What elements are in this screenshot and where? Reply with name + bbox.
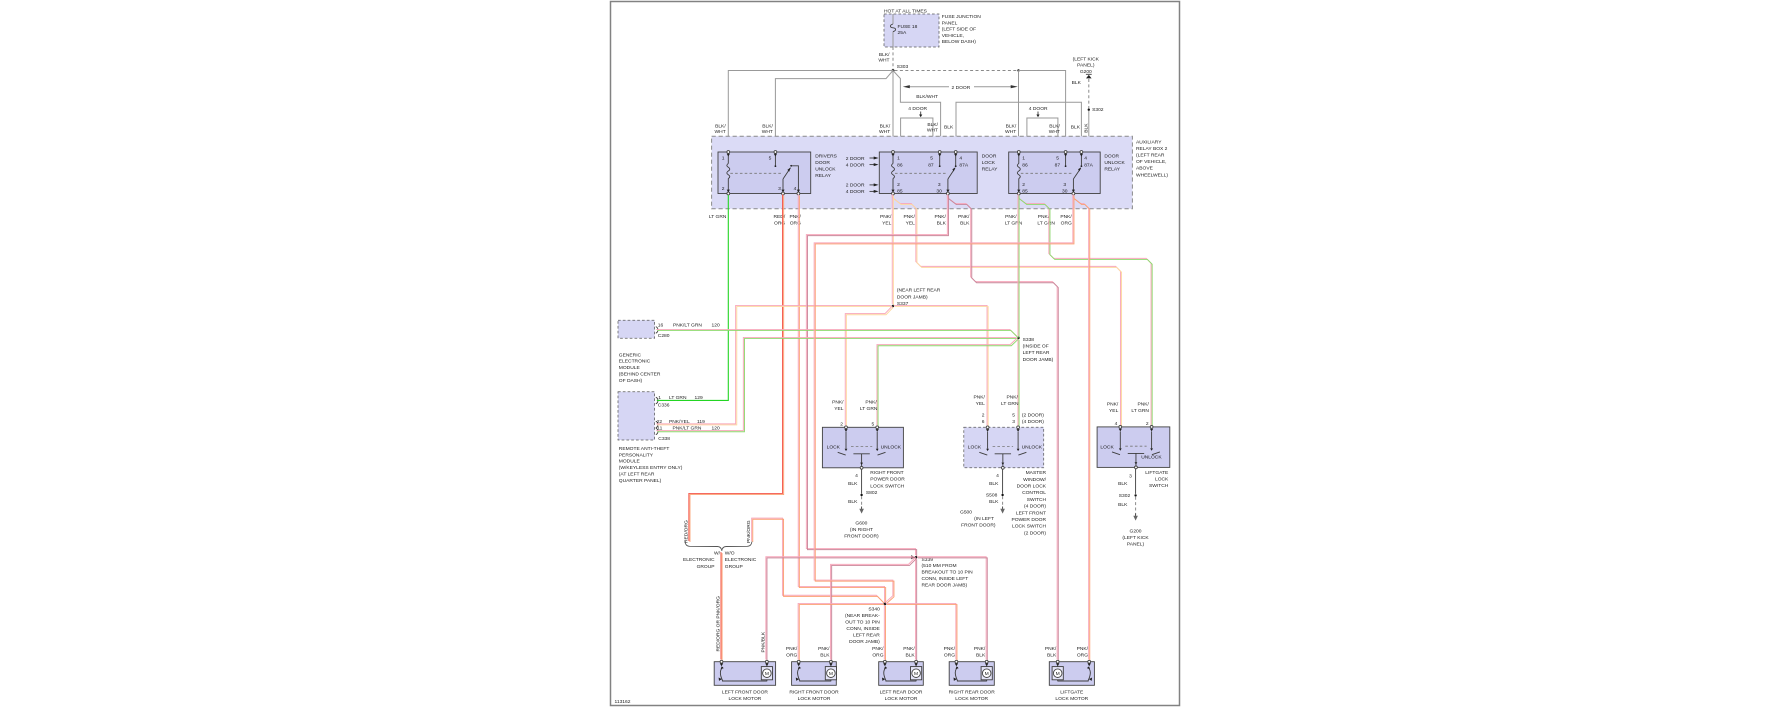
- svg-text:CONTROL: CONTROL: [1022, 490, 1046, 496]
- svg-text:M: M: [985, 671, 989, 677]
- border frame: [611, 2, 1180, 706]
- wire BLK/WHT to relay3 pin5: [1019, 71, 1066, 151]
- svg-text:LIFTGATE: LIFTGATE: [1145, 470, 1169, 476]
- ground G500: [1002, 507, 1004, 510]
- svg-text:ELECTRONIC: ELECTRONIC: [683, 557, 715, 563]
- svg-text:BLK/: BLK/: [927, 122, 938, 128]
- svg-text:WHT: WHT: [879, 129, 890, 135]
- svg-text:ABOVE: ABOVE: [1136, 166, 1154, 172]
- relay K1 drivers door unlock relay: [718, 152, 811, 194]
- svg-text:PNK/: PNK/: [786, 646, 798, 652]
- svg-text:LOCK: LOCK: [968, 445, 982, 451]
- wire PNK/ORG S340 to right front motor: [798, 603, 883, 659]
- svg-text:FUSE JUNCTION: FUSE JUNCTION: [942, 14, 982, 20]
- svg-text:UNLOCK: UNLOCK: [1141, 454, 1162, 460]
- svg-text:MASTER: MASTER: [1026, 470, 1047, 476]
- brace W / W-O electronic group: [685, 542, 752, 551]
- svg-text:6: 6: [982, 419, 985, 425]
- svg-text:LOCK MOTOR: LOCK MOTOR: [1055, 696, 1088, 702]
- splice S339: [911, 555, 915, 559]
- svg-text:4 DOOR: 4 DOOR: [846, 189, 865, 195]
- wire BLK/WHT S303 to door lock relay pin5: [893, 71, 941, 151]
- svg-text:2: 2: [840, 421, 843, 427]
- svg-text:FUSE 18: FUSE 18: [898, 24, 918, 30]
- svg-text:BLK: BLK: [1118, 502, 1128, 508]
- svg-text:PNK/: PNK/: [903, 646, 915, 652]
- svg-text:BLK/: BLK/: [879, 52, 890, 58]
- svg-text:ORG: ORG: [872, 653, 883, 659]
- svg-text:LT GRN: LT GRN: [1131, 408, 1149, 414]
- svg-text:LEFT REAR: LEFT REAR: [1023, 350, 1050, 356]
- svg-text:ORG: ORG: [1061, 221, 1072, 227]
- svg-text:REAR DOOR JAMB): REAR DOOR JAMB): [922, 582, 968, 588]
- svg-text:5: 5: [769, 156, 772, 162]
- svg-text:4: 4: [959, 156, 962, 162]
- svg-text:POWER DOOR: POWER DOOR: [870, 477, 905, 483]
- svg-text:C338: C338: [658, 436, 670, 442]
- svg-text:DOOR JAMB): DOOR JAMB): [849, 639, 880, 645]
- svg-text:4: 4: [1084, 156, 1087, 162]
- svg-text:BLK: BLK: [820, 653, 830, 659]
- svg-text:BLK: BLK: [960, 221, 970, 227]
- svg-text:87: 87: [928, 162, 934, 168]
- svg-text:YEL: YEL: [882, 221, 892, 227]
- svg-text:86: 86: [897, 162, 903, 168]
- svg-text:PNK/: PNK/: [973, 395, 985, 401]
- svg-text:2: 2: [897, 182, 900, 188]
- svg-text:RED/ORG: RED/ORG: [683, 520, 689, 543]
- svg-text:86: 86: [1022, 162, 1028, 168]
- svg-text:LT GRN: LT GRN: [860, 406, 878, 412]
- svg-text:PNK/: PNK/: [880, 214, 892, 220]
- svg-text:(IN LEFT: (IN LEFT: [974, 516, 994, 522]
- svg-text:M: M: [829, 671, 833, 677]
- svg-text:DRIVERS: DRIVERS: [815, 153, 837, 159]
- svg-text:(2 DOOR): (2 DOOR): [1024, 530, 1046, 536]
- svg-text:S302: S302: [1119, 493, 1131, 499]
- svg-text:LEFT FRONT DOOR: LEFT FRONT DOOR: [722, 689, 768, 695]
- svg-text:S303: S303: [897, 64, 909, 70]
- svg-text:M: M: [765, 671, 769, 677]
- wire RED/ORG relay1 pin3 to W/ group: [689, 194, 783, 541]
- svg-text:LEFT REAR: LEFT REAR: [853, 633, 880, 639]
- wire BLK/WHT S303 to drivers relay pin1: [728, 71, 893, 151]
- svg-text:LEFT FRONT: LEFT FRONT: [1016, 510, 1046, 516]
- svg-text:LOCK MOTOR: LOCK MOTOR: [955, 696, 988, 702]
- svg-text:LEFT REAR DOOR: LEFT REAR DOOR: [880, 689, 923, 695]
- svg-text:PNK/BLK: PNK/BLK: [761, 631, 767, 652]
- motor left front door lock motor: [714, 662, 775, 686]
- svg-text:3: 3: [938, 182, 941, 188]
- svg-text:4 DOOR: 4 DOOR: [1029, 106, 1048, 112]
- svg-text:SWITCH: SWITCH: [1027, 497, 1047, 503]
- svg-text:PANEL): PANEL): [1077, 63, 1095, 69]
- svg-text:CONN, INSIDE LEFT: CONN, INSIDE LEFT: [922, 576, 969, 582]
- svg-text:BLK/: BLK/: [762, 123, 773, 129]
- svg-text:WHT: WHT: [927, 128, 938, 134]
- svg-text:(NEAR LEFT REAR: (NEAR LEFT REAR: [897, 288, 941, 294]
- wire BLK dashed to S302: [1088, 79, 1090, 109]
- svg-text:BLK: BLK: [848, 481, 858, 487]
- svg-text:M: M: [914, 671, 918, 677]
- svg-text:UNLOCK: UNLOCK: [1104, 160, 1125, 166]
- svg-text:DOOR JAMB): DOOR JAMB): [897, 294, 928, 300]
- svg-text:4 DOOR: 4 DOOR: [846, 162, 865, 168]
- svg-text:LOCK: LOCK: [1100, 444, 1114, 450]
- svg-text:1: 1: [1022, 156, 1025, 162]
- svg-text:5: 5: [1056, 156, 1059, 162]
- svg-text:OF VEHICLE,: OF VEHICLE,: [1136, 159, 1166, 165]
- svg-text:BLK: BLK: [848, 499, 858, 505]
- svg-text:LT GRN: LT GRN: [1005, 221, 1023, 227]
- svg-text:RIGHT REAR DOOR: RIGHT REAR DOOR: [949, 689, 996, 695]
- svg-text:WHEELWELL): WHEELWELL): [1136, 172, 1168, 178]
- svg-text:4: 4: [1115, 421, 1118, 427]
- svg-text:3: 3: [1063, 182, 1066, 188]
- svg-text:WINDOW/: WINDOW/: [1023, 477, 1046, 483]
- svg-text:PNK/: PNK/: [872, 646, 884, 652]
- svg-text:RELAY: RELAY: [982, 166, 998, 172]
- svg-text:(4 DOOR): (4 DOOR): [1022, 419, 1044, 425]
- switch master window door lock control switch: [964, 427, 1044, 468]
- svg-text:(2 DOOR): (2 DOOR): [1022, 412, 1044, 418]
- motor right front door lock motor: [792, 662, 837, 686]
- svg-text:2: 2: [722, 186, 725, 192]
- svg-text:DOOR: DOOR: [815, 160, 830, 166]
- svg-text:PNK/: PNK/: [1006, 395, 1018, 401]
- svg-text:BLK/WHT: BLK/WHT: [916, 94, 938, 100]
- svg-text:WHT: WHT: [878, 58, 889, 64]
- wire PNK/LT GRN relay3 pin85 through S338 to master switch: [1017, 194, 1019, 336]
- splice S802: [860, 494, 862, 496]
- svg-text:RELAY: RELAY: [1104, 166, 1120, 172]
- wire PNK/ORG relay3 pin30 to S340: [814, 194, 1073, 603]
- svg-text:VEHICLE,: VEHICLE,: [942, 33, 964, 39]
- svg-text:5: 5: [1012, 412, 1015, 418]
- svg-text:UNLOCK: UNLOCK: [881, 445, 902, 451]
- svg-text:87A: 87A: [1084, 162, 1093, 168]
- svg-text:RIGHT FRONT: RIGHT FRONT: [870, 470, 903, 476]
- svg-text:C336: C336: [658, 402, 670, 408]
- remote anti-theft personality module: [618, 392, 655, 440]
- svg-text:(LEFT SIDE OF: (LEFT SIDE OF: [942, 27, 976, 33]
- svg-text:85: 85: [897, 189, 903, 195]
- svg-text:ORG: ORG: [1077, 653, 1088, 659]
- svg-text:WHT: WHT: [762, 129, 773, 135]
- svg-text:BLK: BLK: [944, 125, 954, 131]
- switch liftgate lock switch: [1097, 427, 1170, 468]
- svg-text:S302: S302: [1092, 107, 1104, 113]
- svg-text:PNK/: PNK/: [1045, 646, 1057, 652]
- svg-text:2: 2: [982, 412, 985, 418]
- svg-text:YEL: YEL: [834, 406, 844, 412]
- svg-text:113162: 113162: [615, 699, 631, 705]
- svg-text:LOCK MOTOR: LOCK MOTOR: [885, 696, 918, 702]
- svg-text:2: 2: [1146, 421, 1149, 427]
- 2 DOOR span arrows: [906, 86, 949, 88]
- wire PNK/LT GRN C338 pin11 to S338 (green): [656, 337, 1016, 430]
- svg-text:PNK/: PNK/: [1038, 214, 1050, 220]
- svg-text:PNK/: PNK/: [974, 646, 986, 652]
- svg-text:(LEFT KICK: (LEFT KICK: [1122, 535, 1149, 541]
- svg-text:PNK/: PNK/: [1107, 401, 1119, 407]
- svg-text:2 DOOR: 2 DOOR: [846, 183, 865, 189]
- svg-text:(W/KEYLESS ENTRY ONLY): (W/KEYLESS ENTRY ONLY): [619, 465, 683, 471]
- svg-text:PNK/: PNK/: [934, 214, 946, 220]
- svg-text:30: 30: [936, 189, 942, 195]
- wire PNK/BLK S339 to left front motor: [766, 557, 914, 660]
- svg-text:PANEL: PANEL: [942, 20, 958, 26]
- svg-text:DOOR: DOOR: [982, 153, 997, 159]
- svg-text:PNK/: PNK/: [865, 399, 877, 405]
- wire BLK/WHT S303 to drivers relay pin5: [775, 71, 893, 151]
- generic electronic module: [618, 320, 655, 338]
- svg-text:BLK/: BLK/: [880, 123, 891, 129]
- wire RED/ORG or PNK/ORG to left front motor: [720, 552, 722, 660]
- svg-text:BLK: BLK: [989, 481, 999, 487]
- svg-text:85: 85: [1022, 189, 1028, 195]
- svg-text:1: 1: [897, 156, 900, 162]
- svg-text:G500: G500: [960, 509, 972, 515]
- svg-text:LOCK SWITCH: LOCK SWITCH: [870, 483, 904, 489]
- svg-text:4: 4: [996, 473, 999, 479]
- svg-text:30: 30: [1062, 189, 1068, 195]
- wire BLK relay2 pin4 to relay3 pin4: [956, 102, 1081, 150]
- svg-text:4: 4: [794, 186, 797, 192]
- svg-text:ORG: ORG: [944, 653, 955, 659]
- svg-text:WHT: WHT: [1049, 129, 1060, 135]
- switch right front power door lock switch: [822, 427, 903, 468]
- motor liftgate lock motor: [1049, 662, 1094, 686]
- auxiliary relay box 2: [712, 136, 1133, 209]
- wire PNK/BLK relay2 pin30 to S339: [806, 194, 947, 555]
- svg-text:BLK: BLK: [1047, 653, 1057, 659]
- svg-text:PNK/LT GRN: PNK/LT GRN: [673, 322, 702, 328]
- svg-text:(IN RIGHT: (IN RIGHT: [850, 527, 873, 533]
- svg-text:PNK/ORG: PNK/ORG: [746, 520, 752, 543]
- svg-text:BLK/: BLK/: [715, 123, 726, 129]
- svg-text:BREAKOUT TO 10 PIN: BREAKOUT TO 10 PIN: [922, 570, 974, 576]
- svg-text:LT GRN: LT GRN: [709, 214, 727, 220]
- wire PNK/YEL relay2 pin85 to S337: [891, 194, 893, 304]
- wire BLK/WHT inside fuse box: [892, 14, 894, 24]
- node at 2-door takeout: [1017, 69, 1019, 71]
- svg-text:PNK/: PNK/: [1005, 214, 1017, 220]
- svg-text:C280: C280: [658, 333, 670, 339]
- svg-text:LOCK: LOCK: [827, 445, 841, 451]
- svg-text:BLK: BLK: [1071, 125, 1081, 131]
- motor left rear door lock motor: [879, 662, 924, 686]
- svg-text:LOCK MOTOR: LOCK MOTOR: [798, 696, 831, 702]
- svg-text:2 DOOR: 2 DOOR: [952, 85, 971, 91]
- wire PNK/YEL S337 to right front switch pin2: [845, 306, 892, 425]
- wire PNK/ORG S340 to left rear motor: [883, 605, 885, 660]
- svg-text:REMOTE ANTI-THEFT: REMOTE ANTI-THEFT: [619, 446, 670, 452]
- svg-text:(INSIDE OF: (INSIDE OF: [1023, 344, 1049, 350]
- svg-text:(NEAR BREAK-: (NEAR BREAK-: [845, 613, 880, 619]
- svg-text:MODULE: MODULE: [619, 365, 641, 371]
- svg-text:YEL: YEL: [906, 221, 916, 227]
- svg-text:4: 4: [855, 473, 858, 479]
- splice S337: [892, 305, 895, 308]
- svg-text:(BEHIND CENTER: (BEHIND CENTER: [619, 372, 661, 378]
- svg-text:2 DOOR: 2 DOOR: [846, 156, 865, 162]
- svg-text:G600: G600: [855, 521, 867, 527]
- svg-text:(510 MM FROM: (510 MM FROM: [922, 563, 957, 569]
- svg-text:1: 1: [722, 156, 725, 162]
- svg-text:PANEL): PANEL): [1127, 542, 1145, 548]
- svg-text:BLK: BLK: [976, 653, 986, 659]
- svg-text:GROUP: GROUP: [725, 564, 743, 570]
- svg-text:PNK/: PNK/: [1060, 214, 1072, 220]
- wire PNK/YEL relay2 pin85 branch to liftgate switch pin4: [892, 194, 1120, 425]
- svg-text:W/: W/: [714, 551, 721, 557]
- svg-text:ELECTRONIC: ELECTRONIC: [619, 359, 651, 365]
- svg-text:S802: S802: [866, 490, 878, 496]
- svg-text:PNK/: PNK/: [1077, 646, 1089, 652]
- svg-text:BLK/: BLK/: [1006, 123, 1017, 129]
- wire PNK/ORG S340 to right rear motor: [886, 603, 956, 659]
- svg-text:ELECTRONIC: ELECTRONIC: [725, 557, 757, 563]
- svg-text:WHT: WHT: [715, 129, 726, 135]
- wire PNK/LT GRN S338 to right front switch pin5 (green): [877, 338, 1017, 425]
- ground G600: [861, 507, 863, 510]
- motor right rear door lock motor: [949, 662, 994, 686]
- wire PNK/ORG relay3 pin30 branch to liftgate motor: [1073, 194, 1089, 659]
- svg-text:BLK: BLK: [905, 653, 915, 659]
- svg-text:BLK: BLK: [937, 221, 947, 227]
- svg-text:BLK: BLK: [1084, 123, 1090, 133]
- svg-text:DOOR: DOOR: [1104, 153, 1119, 159]
- wire BLK/WHT S303 down to door lock relay pin1: [892, 71, 894, 151]
- svg-text:BLK: BLK: [989, 499, 999, 505]
- svg-text:PNK/: PNK/: [1137, 401, 1149, 407]
- relay K2 door lock relay: [879, 152, 977, 194]
- wire PNK/LT GRN C280 pin16 to S338 (green): [656, 329, 1017, 337]
- svg-text:FRONT DOOR): FRONT DOOR): [844, 534, 879, 540]
- svg-text:LOCK SWITCH: LOCK SWITCH: [1012, 524, 1046, 530]
- svg-text:BLK: BLK: [1118, 481, 1128, 487]
- wire PNK/BLK relay2 pin30 branch to liftgate motor: [947, 194, 1057, 659]
- splice S302: [1088, 109, 1090, 111]
- wire PNK/BLK S339 to left rear motor: [915, 558, 917, 659]
- svg-text:16: 16: [658, 322, 664, 328]
- svg-text:OUT TO 10 PIN: OUT TO 10 PIN: [845, 620, 880, 626]
- svg-text:LIFTGATE: LIFTGATE: [1060, 689, 1084, 695]
- svg-text:M: M: [1056, 671, 1060, 677]
- wire PNK/YEL S337 to C338 pin22: [656, 305, 891, 423]
- svg-text:W/O: W/O: [725, 551, 735, 557]
- splice S338: [1017, 337, 1020, 340]
- svg-text:CONN, INSIDE: CONN, INSIDE: [846, 626, 880, 632]
- svg-text:ORG: ORG: [786, 653, 797, 659]
- svg-text:LOCK: LOCK: [1155, 477, 1169, 483]
- wire BLK/WHT to relay3 pin1: [1018, 71, 1020, 151]
- wire PNK/BLK S339 to right rear motor: [917, 557, 986, 660]
- svg-text:87A: 87A: [959, 162, 968, 168]
- splice S340: [884, 603, 887, 606]
- svg-text:PNK/: PNK/: [903, 214, 915, 220]
- wire BLK S302 to relay3 pin4: [1081, 111, 1088, 149]
- svg-text:2: 2: [1022, 182, 1025, 188]
- svg-text:PNK/: PNK/: [958, 214, 970, 220]
- svg-text:WHT: WHT: [1005, 129, 1016, 135]
- svg-text:3: 3: [1129, 473, 1132, 479]
- svg-text:BELOW DASH): BELOW DASH): [942, 39, 977, 45]
- svg-text:PNK/: PNK/: [944, 646, 956, 652]
- svg-text:AUXILIARY: AUXILIARY: [1136, 139, 1162, 145]
- svg-text:RED/ORG OR PNK/ORG: RED/ORG OR PNK/ORG: [716, 596, 722, 652]
- svg-text:3: 3: [1012, 419, 1015, 425]
- svg-text:UNLOCK: UNLOCK: [815, 166, 836, 172]
- svg-text:5: 5: [871, 421, 874, 427]
- svg-text:120: 120: [712, 322, 720, 328]
- svg-text:25A: 25A: [898, 30, 907, 36]
- svg-text:UNLOCK: UNLOCK: [1022, 445, 1043, 451]
- svg-text:4 DOOR: 4 DOOR: [908, 106, 927, 112]
- svg-text:DOOR JAMB): DOOR JAMB): [1023, 357, 1054, 363]
- svg-text:G200: G200: [1130, 529, 1142, 535]
- svg-text:(AT LEFT REAR: (AT LEFT REAR: [619, 472, 655, 478]
- wire PNK/BLK S339 to right front motor: [831, 557, 916, 659]
- wire PNK/ORG relay1 pin4 down to S340: [798, 194, 884, 602]
- svg-text:YEL: YEL: [976, 401, 986, 407]
- wire PNK/YEL S337 to master switch pin2: [894, 305, 987, 425]
- svg-text:S508: S508: [986, 493, 998, 499]
- ground G200 lower: [1135, 514, 1137, 517]
- svg-text:YEL: YEL: [1109, 408, 1119, 414]
- svg-text:PNK/: PNK/: [832, 399, 844, 405]
- splice S303: [892, 69, 895, 72]
- wire LT GRN relay1 pin2 to C336 pin1: [657, 195, 729, 400]
- svg-text:S338: S338: [1023, 337, 1035, 343]
- svg-text:RIGHT FRONT DOOR: RIGHT FRONT DOOR: [789, 689, 839, 695]
- splice S508: [1001, 494, 1003, 496]
- svg-text:BLK/: BLK/: [1049, 123, 1060, 129]
- svg-text:RELAY BOX 2: RELAY BOX 2: [1136, 146, 1168, 152]
- svg-text:MODULE: MODULE: [619, 459, 641, 465]
- svg-text:BLK: BLK: [1072, 80, 1082, 86]
- svg-text:RELAY: RELAY: [815, 173, 831, 179]
- svg-text:PNK/: PNK/: [818, 646, 830, 652]
- svg-text:5: 5: [930, 156, 933, 162]
- wire PNK/LT GRN relay3 pin85 branch to liftgate switch pin2: [1018, 194, 1151, 425]
- svg-text:(4 DOOR): (4 DOOR): [1024, 504, 1046, 510]
- svg-text:LT GRN: LT GRN: [1001, 401, 1019, 407]
- splice S302 lower: [1134, 494, 1136, 496]
- svg-text:(LEFT KICK: (LEFT KICK: [1073, 56, 1100, 62]
- fuse junction panel box: [884, 14, 939, 47]
- svg-text:DOOR LOCK: DOOR LOCK: [1017, 484, 1047, 490]
- svg-text:LOCK: LOCK: [982, 160, 996, 166]
- wire BLK/WHT dashed fuse to S303: [892, 47, 894, 69]
- svg-text:LT GRN: LT GRN: [1037, 221, 1055, 227]
- svg-text:3: 3: [778, 186, 781, 192]
- svg-text:SWITCH: SWITCH: [1149, 483, 1169, 489]
- svg-text:PERSONALITY: PERSONALITY: [619, 452, 654, 458]
- svg-text:HOT AT ALL TIMES: HOT AT ALL TIMES: [884, 8, 928, 14]
- svg-text:GENERIC: GENERIC: [619, 352, 642, 358]
- svg-text:S340: S340: [868, 607, 880, 613]
- relay K3 door unlock relay: [1009, 152, 1100, 194]
- wire dashed S303 to right junction: [895, 70, 1019, 72]
- fuse F18 symbol: [890, 24, 895, 32]
- svg-text:LOCK MOTOR: LOCK MOTOR: [729, 696, 762, 702]
- svg-text:QUARTER PANEL): QUARTER PANEL): [619, 478, 662, 484]
- svg-text:87: 87: [1055, 162, 1061, 168]
- svg-text:OF DASH): OF DASH): [619, 378, 643, 384]
- svg-text:POWER DOOR: POWER DOOR: [1011, 517, 1046, 523]
